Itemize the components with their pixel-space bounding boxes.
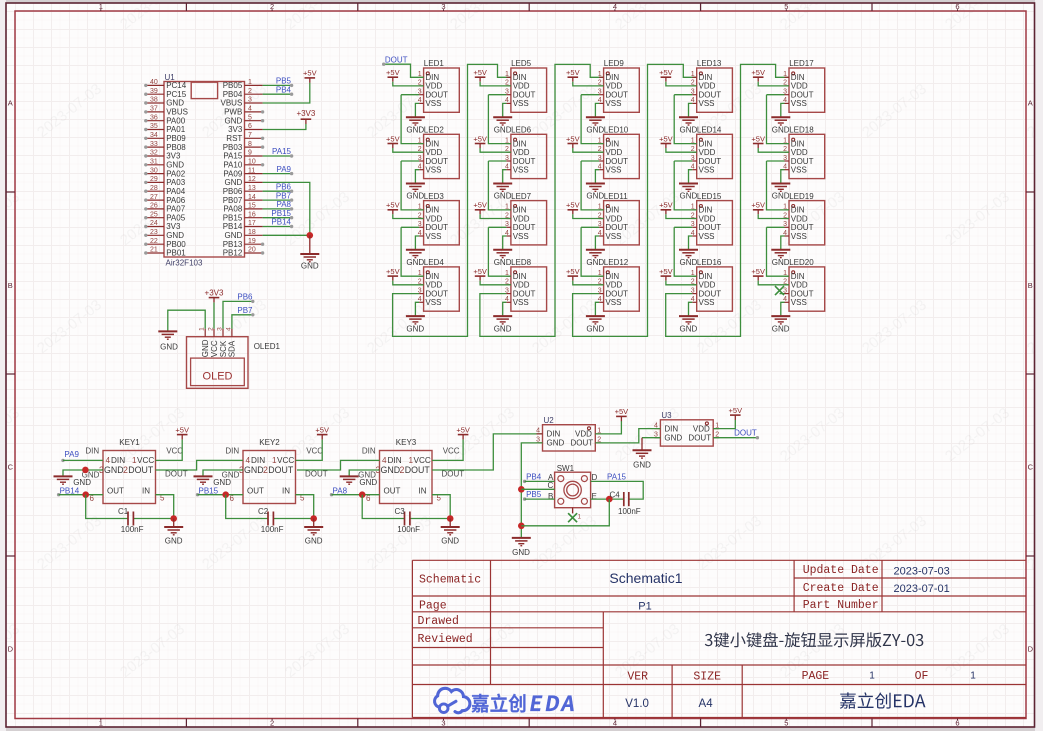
svg-text:SIZE: SIZE [693,670,721,683]
svg-text:PA8: PA8 [333,486,348,495]
svg-text:PB15: PB15 [199,486,219,495]
svg-text:C: C [8,463,14,472]
svg-text:DOUT: DOUT [734,428,757,437]
svg-text:DOUT: DOUT [791,289,814,298]
svg-text:+5V: +5V [473,201,487,210]
svg-text:LED18: LED18 [789,126,814,135]
svg-text:GND: GND [494,324,512,333]
svg-text:SCK: SCK [219,340,228,357]
svg-text:23: 23 [150,229,158,236]
svg-text:KEY2: KEY2 [259,438,280,447]
svg-text:GND: GND [244,465,264,475]
svg-text:GND: GND [772,125,790,134]
svg-text:VSS: VSS [513,298,529,307]
svg-text:LED17: LED17 [789,59,814,68]
svg-text:PB7: PB7 [276,191,292,200]
svg-text:27: 27 [150,194,158,201]
svg-text:GND: GND [494,258,512,267]
svg-text:B: B [1028,281,1033,290]
svg-text:PA08: PA08 [223,205,243,214]
svg-text:GND: GND [512,548,530,557]
svg-text:VSS: VSS [791,99,807,108]
svg-text:D: D [1028,645,1034,654]
svg-text:OF: OF [915,670,929,683]
svg-text:GND: GND [225,231,243,240]
svg-text:PA8: PA8 [276,200,291,209]
svg-text:RST: RST [226,134,242,143]
svg-text:VDD: VDD [605,148,622,157]
svg-text:PA15: PA15 [272,147,292,156]
svg-text:DIN: DIN [664,424,678,433]
svg-text:VSS: VSS [513,232,529,241]
svg-text:DOUT: DOUT [699,223,722,232]
svg-text:DOUT: DOUT [605,157,628,166]
svg-text:LED4: LED4 [424,258,445,267]
svg-text:9: 9 [248,150,252,157]
svg-text:+5V: +5V [386,267,400,276]
svg-text:LED7: LED7 [511,192,532,201]
svg-text:+5V: +5V [315,425,329,434]
svg-text:GND: GND [166,99,184,108]
svg-text:IN: IN [282,487,290,496]
svg-text:PB00: PB00 [166,240,186,249]
svg-text:2: 2 [123,465,128,475]
svg-text:VSS: VSS [791,166,807,175]
svg-text:DOUT: DOUT [425,289,448,298]
svg-text:100nF: 100nF [618,507,641,516]
svg-text:29: 29 [150,176,158,183]
svg-text:GND: GND [586,192,604,201]
svg-text:VDD: VDD [605,281,622,290]
svg-text:PA06: PA06 [166,196,186,205]
svg-text:PB01: PB01 [166,249,186,258]
svg-text:VDD: VDD [791,148,808,157]
svg-text:14: 14 [248,194,256,201]
svg-text:GND: GND [406,192,424,201]
svg-text:PA04: PA04 [166,187,186,196]
svg-text:PB07: PB07 [223,196,243,205]
svg-text:25: 25 [150,211,158,218]
svg-text:DOUT: DOUT [128,465,154,475]
svg-text:GND: GND [406,324,424,333]
svg-text:DOUT: DOUT [442,469,465,478]
svg-text:VDD: VDD [699,148,716,157]
svg-text:GND: GND [664,433,682,442]
svg-text:32: 32 [150,150,158,157]
svg-text:Air32F103: Air32F103 [166,259,203,268]
svg-text:PA09: PA09 [223,169,243,178]
svg-text:LED20: LED20 [789,258,814,267]
svg-text:DOUT: DOUT [305,469,328,478]
svg-text:GND: GND [305,537,323,546]
svg-text:VSS: VSS [425,166,441,175]
svg-text:VSS: VSS [605,232,621,241]
svg-text:VBUS: VBUS [166,108,188,117]
svg-text:LED15: LED15 [697,192,722,201]
svg-text:PWB: PWB [224,108,242,117]
svg-text:LED10: LED10 [604,126,629,135]
svg-text:DIN: DIN [362,446,376,455]
svg-text:LED2: LED2 [424,126,445,135]
svg-text:LED16: LED16 [697,258,722,267]
svg-text:Drawed: Drawed [418,615,459,628]
svg-text:VSS: VSS [425,99,441,108]
svg-text:VDD: VDD [575,430,592,439]
svg-text:VSS: VSS [425,298,441,307]
svg-text:PB12: PB12 [223,249,243,258]
svg-text:OUT: OUT [107,487,124,496]
svg-text:PB08: PB08 [166,143,186,152]
svg-text:PB5: PB5 [276,77,292,86]
svg-text:OUT: OUT [384,487,401,496]
svg-text:4: 4 [106,456,111,465]
svg-text:VDD: VDD [791,281,808,290]
svg-text:+5V: +5V [659,134,673,143]
svg-text:8: 8 [248,141,252,148]
svg-text:19: 19 [248,238,256,245]
svg-text:GND: GND [406,125,424,134]
svg-text:DOUT: DOUT [513,91,536,100]
svg-text:PA01: PA01 [166,125,186,134]
svg-text:SW1: SW1 [557,464,575,473]
svg-text:GND: GND [633,461,651,470]
svg-text:VDD: VDD [425,148,442,157]
svg-text:VBUS: VBUS [221,99,243,108]
svg-text:1: 1 [783,71,787,78]
svg-text:+3V3: +3V3 [205,288,224,297]
svg-text:DOUT: DOUT [791,157,814,166]
svg-text:22: 22 [150,238,158,245]
svg-text:U3: U3 [661,411,672,420]
svg-text:3V3: 3V3 [228,125,243,134]
svg-text:PB05: PB05 [223,81,243,90]
svg-text:A4: A4 [699,698,714,710]
svg-text:+5V: +5V [751,68,765,77]
svg-text:VSS: VSS [605,166,621,175]
svg-text:VDD: VDD [791,82,808,91]
svg-text:PA9: PA9 [276,165,291,174]
svg-text:LED5: LED5 [511,59,532,68]
svg-text:DOUT: DOUT [513,157,536,166]
svg-text:24: 24 [150,220,158,227]
svg-text:6: 6 [366,494,371,503]
svg-text:13: 13 [248,185,256,192]
svg-text:VDD: VDD [605,214,622,223]
svg-text:VCC: VCC [166,446,183,455]
svg-text:PA10: PA10 [223,161,243,170]
svg-text:VSS: VSS [699,166,715,175]
svg-text:C2: C2 [258,507,269,516]
svg-text:GND: GND [301,262,319,271]
svg-text:PA03: PA03 [166,178,186,187]
svg-text:GND: GND [381,465,401,475]
svg-text:PA07: PA07 [166,205,186,214]
svg-text:DOUT: DOUT [605,91,628,100]
svg-text:VCC: VCC [137,456,154,465]
svg-text:VSS: VSS [605,99,621,108]
svg-text:GND: GND [772,258,790,267]
svg-text:36: 36 [150,114,158,121]
svg-text:GND: GND [680,192,698,201]
svg-text:39: 39 [150,88,158,95]
svg-text:1: 1 [505,71,509,78]
svg-text:GND: GND [494,192,512,201]
svg-text:PA15: PA15 [223,152,243,161]
svg-text:PB15: PB15 [223,213,243,222]
svg-text:DOUT: DOUT [513,289,536,298]
svg-text:C: C [1028,463,1034,472]
svg-text:PB14: PB14 [223,222,243,231]
svg-text:15: 15 [248,203,256,210]
svg-text:Schematic: Schematic [419,574,481,587]
svg-text:GND: GND [406,258,424,267]
svg-text:GND: GND [494,125,512,134]
svg-text:DOUT: DOUT [425,91,448,100]
svg-text:VSS: VSS [791,232,807,241]
svg-text:DOUT: DOUT [605,289,628,298]
svg-text:+5V: +5V [473,68,487,77]
svg-text:VDD: VDD [513,214,530,223]
svg-text:GND: GND [441,537,459,546]
svg-text:GND: GND [225,116,243,125]
svg-text:PC14: PC14 [166,81,187,90]
svg-text:1: 1 [691,71,695,78]
svg-text:LED8: LED8 [511,258,532,267]
svg-text:VCC: VCC [277,456,294,465]
svg-text:C3: C3 [395,507,406,516]
svg-text:IN: IN [142,487,150,496]
svg-text:4: 4 [382,456,387,465]
svg-text:+5V: +5V [615,407,629,416]
svg-text:VSS: VSS [699,232,715,241]
svg-text:VDD: VDD [425,82,442,91]
svg-text:C1: C1 [118,507,129,516]
svg-text:A: A [1028,99,1033,108]
svg-text:+5V: +5V [659,68,673,77]
svg-text:+5V: +5V [473,134,487,143]
svg-text:PB14: PB14 [271,218,291,227]
svg-text:VDD: VDD [513,82,530,91]
svg-text:GND: GND [359,478,377,487]
svg-text:GND: GND [680,324,698,333]
svg-text:DOUT: DOUT [605,223,628,232]
svg-text:PB06: PB06 [223,187,243,196]
svg-text:21: 21 [150,247,158,254]
svg-text:Part Number: Part Number [803,599,879,612]
svg-text:PA9: PA9 [64,450,79,459]
svg-text:10: 10 [248,159,256,166]
svg-text:DOUT: DOUT [699,91,722,100]
svg-text:A: A [8,99,13,108]
svg-text:PB04: PB04 [223,90,243,99]
svg-text:LED6: LED6 [511,126,532,135]
svg-text:PB09: PB09 [166,134,186,143]
svg-text:GND: GND [160,343,178,352]
svg-text:Page: Page [419,599,447,612]
svg-text:+5V: +5V [751,267,765,276]
svg-text:DOUT: DOUT [268,465,294,475]
svg-text:6: 6 [230,494,235,503]
svg-text:D: D [8,645,14,654]
svg-text:20: 20 [248,247,256,254]
svg-text:28: 28 [150,185,158,192]
svg-text:2023-07-03: 2023-07-03 [894,566,950,578]
svg-text:+5V: +5V [386,201,400,210]
svg-text:VDD: VDD [513,281,530,290]
svg-text:KEY3: KEY3 [396,438,417,447]
svg-text:SDA: SDA [228,340,237,357]
svg-text:DIN: DIN [85,446,99,455]
svg-text:+5V: +5V [386,68,400,77]
svg-text:Schematic1: Schematic1 [609,570,682,586]
svg-text:GND: GND [772,192,790,201]
svg-text:DOUT: DOUT [425,157,448,166]
svg-text:+5V: +5V [566,201,580,210]
svg-text:VSS: VSS [513,99,529,108]
svg-text:100nF: 100nF [397,525,420,534]
svg-text:PAGE: PAGE [802,670,830,683]
svg-text:GND: GND [166,231,184,240]
svg-text:D: D [592,473,598,482]
svg-text:OLED1: OLED1 [254,342,281,351]
svg-text:OUT: OUT [247,487,264,496]
svg-text:VSS: VSS [513,166,529,175]
svg-text:38: 38 [150,97,158,104]
svg-text:DOUT: DOUT [385,55,408,64]
svg-text:OLED: OLED [203,371,233,383]
svg-text:GND: GND [586,258,604,267]
svg-text:26: 26 [150,203,158,210]
svg-text:DOUT: DOUT [688,433,711,442]
svg-text:P1: P1 [638,600,651,612]
svg-text:LED12: LED12 [604,258,629,267]
svg-text:VCC: VCC [443,446,460,455]
svg-text:PB7: PB7 [237,306,253,315]
svg-text:+5V: +5V [386,134,400,143]
svg-text:VCC: VCC [210,340,219,357]
svg-text:PA15: PA15 [607,473,627,482]
svg-text:IN: IN [419,487,427,496]
svg-text:GND: GND [166,161,184,170]
svg-text:DOUT: DOUT [425,223,448,232]
svg-text:VDD: VDD [693,424,710,433]
svg-text:5: 5 [248,114,252,121]
svg-text:VDD: VDD [699,214,716,223]
svg-text:KEY1: KEY1 [119,438,140,447]
svg-text:DOUT: DOUT [699,289,722,298]
svg-text:VDD: VDD [425,281,442,290]
svg-text:B: B [8,281,13,290]
svg-text:PA02: PA02 [166,169,186,178]
svg-text:GND: GND [547,439,565,448]
svg-text:+5V: +5V [303,69,317,78]
svg-text:+3V3: +3V3 [296,109,315,118]
svg-text:VDD: VDD [699,281,716,290]
svg-text:1: 1 [869,671,875,682]
svg-text:VER: VER [627,670,648,683]
svg-text:Reviewed: Reviewed [418,633,473,646]
svg-text:GND: GND [201,339,210,357]
svg-text:2: 2 [248,88,252,95]
svg-text:7: 7 [248,132,252,139]
svg-text:VCC: VCC [414,456,431,465]
svg-text:LED1: LED1 [424,59,445,68]
svg-text:37: 37 [150,106,158,113]
svg-text:GND: GND [165,537,183,546]
svg-text:LED13: LED13 [697,59,722,68]
svg-text:+5V: +5V [473,267,487,276]
svg-text:3V3: 3V3 [166,222,181,231]
svg-text:2023-07-01: 2023-07-01 [894,583,950,595]
svg-text:DOUT: DOUT [165,469,188,478]
svg-text:+5V: +5V [729,406,743,415]
svg-text:4: 4 [248,106,252,113]
svg-text:PB14: PB14 [60,486,80,495]
svg-text:PB6: PB6 [276,182,292,191]
svg-text:LED19: LED19 [789,192,814,201]
svg-text:DOUT: DOUT [791,91,814,100]
svg-text:VSS: VSS [605,298,621,307]
svg-text:DOUT: DOUT [699,157,722,166]
svg-text:GND: GND [586,324,604,333]
svg-text:PB6: PB6 [237,293,253,302]
svg-text:2: 2 [400,465,405,475]
svg-text:DIN: DIN [111,456,125,465]
svg-text:DOUT: DOUT [571,439,594,448]
svg-text:PB15: PB15 [271,209,291,218]
svg-text:C4: C4 [610,490,621,499]
svg-text:4: 4 [246,456,251,465]
svg-text:100nF: 100nF [261,525,284,534]
svg-text:LED3: LED3 [424,192,445,201]
svg-text:LED11: LED11 [604,192,628,201]
svg-text:GND: GND [104,465,124,475]
svg-text:U2: U2 [544,416,555,425]
svg-text:PA00: PA00 [166,116,186,125]
svg-text:PB13: PB13 [223,240,243,249]
svg-text:VSS: VSS [699,99,715,108]
svg-text:2: 2 [263,465,268,475]
svg-text:40: 40 [150,79,158,86]
svg-text:LED9: LED9 [604,59,625,68]
svg-text:17: 17 [248,220,256,227]
svg-text:6: 6 [248,123,252,130]
svg-text:1: 1 [598,71,602,78]
svg-text:GND: GND [586,125,604,134]
svg-text:DIN: DIN [225,446,239,455]
svg-text:DOUT: DOUT [405,465,431,475]
svg-text:Update Date: Update Date [803,564,879,577]
svg-text:11: 11 [248,167,255,174]
svg-text:+5V: +5V [751,201,765,210]
svg-text:12: 12 [248,176,256,183]
svg-text:DIN: DIN [547,430,561,439]
svg-text:PB4: PB4 [526,473,542,482]
svg-text:VDD: VDD [791,214,808,223]
svg-text:V1.0: V1.0 [625,698,649,710]
svg-text:DOUT: DOUT [513,223,536,232]
svg-text:+5V: +5V [751,134,765,143]
svg-text:3V3: 3V3 [166,152,181,161]
svg-text:34: 34 [150,132,158,139]
svg-text:VSS: VSS [699,298,715,307]
svg-text:VDD: VDD [605,82,622,91]
svg-text:VDD: VDD [513,148,530,157]
svg-text:VDD: VDD [425,214,442,223]
svg-text:3: 3 [248,97,252,104]
svg-text:18: 18 [248,229,256,236]
svg-text:6: 6 [90,494,95,503]
